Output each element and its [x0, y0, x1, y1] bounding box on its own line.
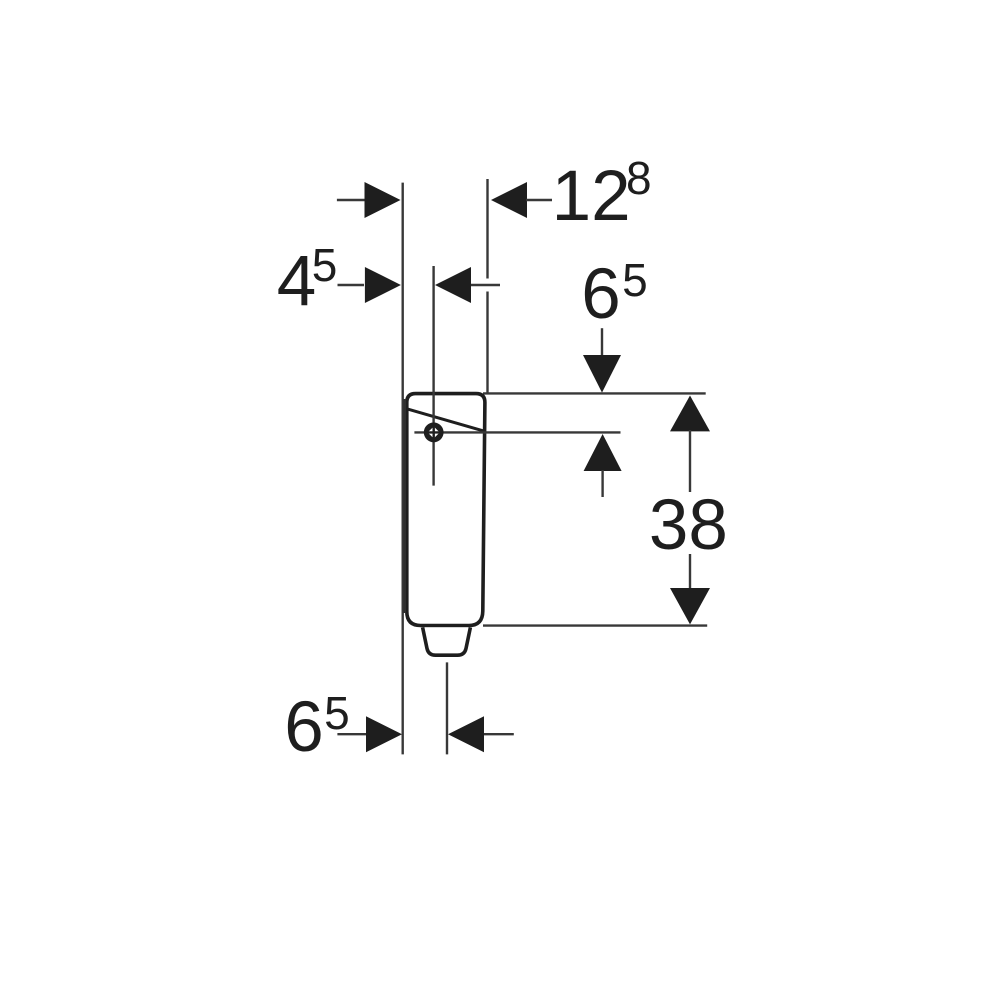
dimension 12.8 tail left — [337, 199, 365, 201]
front face extension line — [486, 179, 488, 393]
dimension 12.8 arrow right — [491, 182, 527, 218]
wall contact edge — [403, 399, 406, 613]
screw horizontal centerline — [414, 431, 620, 433]
dimension 6.5 top arrow down — [583, 355, 621, 393]
dimension 4.5 arrow right — [435, 267, 471, 303]
svg-text:38: 38 — [649, 486, 728, 565]
svg-text:5: 5 — [324, 687, 350, 739]
dimension 6.5 bottom arrow right — [448, 716, 484, 752]
cistern lid seam — [407, 409, 485, 432]
dimension 4.5 tail right with casing — [471, 279, 500, 292]
dimension 38 line lower — [689, 554, 691, 590]
dimension 4.5 arrow left — [365, 267, 401, 303]
svg-text:6: 6 — [284, 688, 324, 767]
dimension 38 arrow up — [670, 396, 710, 432]
wall line — [402, 183, 404, 755]
dimension 6.5 top tail upper — [601, 328, 603, 355]
dimension 6.5 top tail lower — [601, 470, 603, 497]
screw symbol — [424, 423, 443, 442]
dimension 38 arrow down — [670, 588, 710, 624]
svg-text:8: 8 — [626, 152, 652, 204]
outlet centerline — [446, 662, 448, 754]
bottom extension line — [483, 624, 707, 626]
svg-text:4: 4 — [277, 242, 317, 321]
outlet spigot — [423, 627, 471, 655]
svg-text:5: 5 — [312, 239, 338, 291]
dimension 12.8 tail right — [526, 199, 552, 201]
dimension 38 line upper — [689, 430, 691, 492]
dimension 4.5 tail left — [338, 284, 365, 286]
top extension line — [483, 392, 706, 394]
svg-text:12: 12 — [552, 157, 631, 236]
dimension 6.5 bottom tail right — [484, 733, 514, 735]
svg-text:5: 5 — [622, 254, 648, 306]
dimension 6.5 bottom arrow left — [366, 716, 402, 752]
dimension 12.8 arrow left — [365, 182, 401, 218]
screw vertical centerline — [432, 266, 434, 486]
dimension 6.5 top arrow up — [584, 434, 622, 471]
dimension 6.5 bottom tail left — [337, 733, 367, 735]
cistern body — [407, 394, 485, 626]
svg-text:6: 6 — [581, 255, 621, 334]
